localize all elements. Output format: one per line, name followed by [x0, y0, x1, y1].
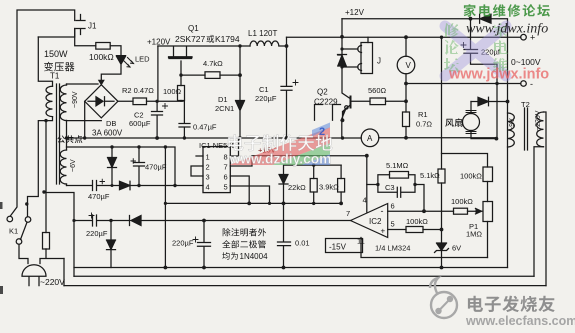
svg-text:11: 11 — [357, 237, 365, 246]
svg-text:T2: T2 — [521, 100, 530, 109]
svg-text:4.7kΩ: 4.7kΩ — [203, 59, 223, 68]
svg-text:5.1kΩ: 5.1kΩ — [420, 171, 440, 180]
svg-text:R2 0.47Ω: R2 0.47Ω — [122, 86, 154, 95]
svg-text:2CN1: 2CN1 — [215, 104, 234, 113]
svg-text:V: V — [406, 61, 412, 70]
svg-text:www.jdwx.info: www.jdwx.info — [466, 22, 548, 37]
svg-text:DB: DB — [106, 119, 116, 128]
svg-text:Q2: Q2 — [317, 88, 328, 97]
svg-text:D1: D1 — [218, 95, 228, 104]
svg-text:4: 4 — [206, 183, 210, 192]
svg-text:2: 2 — [319, 126, 325, 138]
svg-text:3A 600V: 3A 600V — [92, 129, 123, 138]
svg-text:0~100V: 0~100V — [511, 57, 541, 67]
svg-text:150W: 150W — [44, 49, 68, 59]
svg-text:~90V: ~90V — [72, 91, 79, 108]
svg-text:www.dzdiy.com: www.dzdiy.com — [229, 152, 332, 167]
svg-text:~6V: ~6V — [70, 159, 77, 172]
svg-text:6V: 6V — [452, 244, 461, 253]
svg-text:100kΩ: 100kΩ — [451, 197, 473, 206]
svg-text:0.7Ω: 0.7Ω — [416, 120, 432, 129]
svg-text:100kΩ: 100kΩ — [460, 172, 482, 181]
svg-text:220µF: 220µF — [255, 94, 277, 103]
svg-text:7: 7 — [346, 209, 350, 218]
svg-text:220µF: 220µF — [172, 239, 194, 248]
svg-text:www.jdwx.info: www.jdwx.info — [448, 67, 549, 83]
svg-text:~220V: ~220V — [535, 110, 542, 131]
svg-text:3.9kΩ: 3.9kΩ — [319, 183, 339, 192]
svg-text:C1: C1 — [259, 85, 269, 94]
svg-text:LED: LED — [135, 55, 150, 64]
svg-text:2: 2 — [206, 163, 210, 172]
svg-text:470µF: 470µF — [145, 163, 167, 172]
svg-text:5: 5 — [224, 183, 228, 192]
svg-text:K1794: K1794 — [215, 34, 240, 44]
svg-text:+12V: +12V — [345, 8, 365, 17]
svg-text:5.1MΩ: 5.1MΩ — [386, 161, 409, 170]
svg-text:8: 8 — [224, 153, 228, 162]
svg-text:7: 7 — [224, 163, 228, 172]
svg-text:~9V: ~9V — [509, 118, 516, 131]
svg-text:600µF: 600µF — [129, 119, 151, 128]
svg-text:22kΩ: 22kΩ — [288, 183, 306, 192]
svg-text:220µF: 220µF — [86, 229, 108, 238]
svg-text:0.01: 0.01 — [295, 239, 310, 248]
svg-text:-: - — [381, 206, 384, 216]
svg-text:100Ω: 100Ω — [163, 87, 182, 96]
svg-text:C2229: C2229 — [314, 98, 338, 107]
svg-text:A: A — [367, 134, 373, 143]
svg-text:5: 5 — [391, 220, 395, 229]
svg-text:470µF: 470µF — [88, 192, 110, 201]
svg-text:K1: K1 — [9, 227, 18, 236]
svg-text:100kΩ: 100kΩ — [406, 217, 428, 226]
svg-text:100kΩ: 100kΩ — [89, 52, 114, 62]
svg-text:www.elecfans.com: www.elecfans.com — [465, 314, 575, 328]
svg-text:J: J — [377, 57, 381, 66]
svg-text:0.47µF: 0.47µF — [193, 123, 217, 132]
svg-text:J1: J1 — [88, 22, 97, 31]
svg-text:6: 6 — [224, 173, 228, 182]
svg-text:4: 4 — [363, 196, 367, 205]
svg-text:Q1: Q1 — [188, 24, 199, 33]
svg-text:560Ω: 560Ω — [368, 86, 387, 95]
svg-text:1: 1 — [206, 153, 210, 162]
svg-text:R1: R1 — [418, 110, 428, 119]
svg-text:L1 120T: L1 120T — [248, 29, 277, 38]
svg-text:~220V: ~220V — [40, 277, 65, 287]
svg-text:2SK727: 2SK727 — [175, 34, 206, 44]
svg-text:6: 6 — [391, 202, 395, 211]
svg-text:1N4004: 1N4004 — [240, 252, 269, 261]
svg-text:C3: C3 — [385, 183, 395, 192]
svg-text:3: 3 — [206, 173, 210, 182]
svg-text:1/4 LM324: 1/4 LM324 — [375, 244, 410, 253]
svg-text:+120V: +120V — [147, 38, 171, 47]
svg-text:+: + — [381, 227, 386, 236]
svg-text:T1: T1 — [50, 72, 60, 81]
svg-text:-15V: -15V — [329, 243, 347, 252]
svg-text:1MΩ: 1MΩ — [466, 230, 482, 239]
svg-text:IC2: IC2 — [369, 217, 382, 226]
